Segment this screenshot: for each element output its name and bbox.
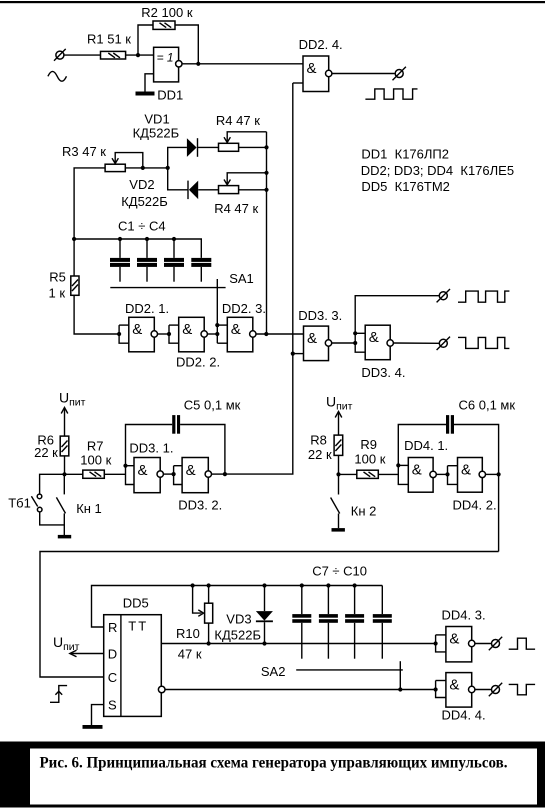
gate DD3.2 [172,458,223,513]
node VD3 bottom [262,641,266,645]
output terminal X3 [437,289,450,302]
svg-text:VD1: VD1 [144,112,169,127]
ground (DD1) [136,92,155,96]
wire DD3.3 output branch to terminal X3 [355,296,439,334]
wire VD1 to R4 upper [198,146,219,148]
resistor R5 [49,270,80,301]
svg-text:&: & [231,321,241,338]
node R1-R2 junction [136,53,140,57]
svg-text:C5 0,1 мк: C5 0,1 мк [184,398,241,413]
wire DD3.4 out to terminal X4 [394,342,440,344]
wire R8 bottom to node [338,455,340,474]
resistor R2 [141,5,193,29]
svg-text:47 к: 47 к [178,647,202,662]
svg-text:DD1 К176ЛП2: DD1 К176ЛП2 [361,146,449,161]
wire clock line (DD4.2 out to DD5 C) [40,552,499,678]
svg-text:R4 47 к: R4 47 к [214,201,258,216]
wire long vertical feedback (DD3.2 out to DD2.4/DD3.3) [225,83,293,474]
gate DD4.1 [398,438,448,492]
node SA2 wiper [398,687,402,691]
wire DD5 Q-bar output line [165,689,436,691]
power Uпит (D pin) [53,634,104,657]
capacitor C5 [126,398,241,475]
gate DD2.4 [299,37,343,92]
svg-text:Рис. 6. Принципиальная схема г: Рис. 6. Принципиальная схема генератора … [40,754,508,771]
wire DD5 Q output line [161,643,435,645]
resistor R4 upper (trimmer) [216,113,267,151]
svg-text:1 к: 1 к [49,286,66,301]
waveform symbol (meander 3 inverted) [458,337,509,348]
svg-text:C7 ÷ C10: C7 ÷ C10 [312,564,367,579]
wire DD1 output to DD2.4 [182,63,303,65]
node VD3 top [262,583,266,587]
node rail junctions [264,145,268,149]
capacitor C6 [398,398,515,552]
svg-text:&: & [132,321,142,338]
gate DD3.1 [126,440,174,492]
svg-text:&: & [138,462,148,479]
svg-text:DD5 К176ТМ2: DD5 К176ТМ2 [361,179,450,194]
svg-text:= 1: = 1 [157,50,174,64]
svg-text:R1 51 к: R1 51 к [87,32,131,47]
gate DD4.3 [434,608,486,662]
ground (Kn1) [58,535,71,539]
svg-text:Кн 2: Кн 2 [351,504,377,519]
button Кн1 [56,474,101,535]
svg-text:D: D [108,646,117,661]
wire R9 to DD4.1 [378,473,398,475]
wire feedback rail (R4s to DD2.3 output) [266,132,268,334]
svg-text:DD4. 4.: DD4. 4. [442,708,486,723]
wire DD3.1 out to DD3.2 [164,473,174,475]
diode VD3 [214,586,273,644]
caption shadow box [0,742,545,808]
svg-text:DD3. 1.: DD3. 1. [129,440,173,455]
wire R6 bottom to node [64,456,66,474]
svg-text:R: R [108,620,117,635]
capacitor C7 [292,583,311,658]
svg-text:DD4. 3.: DD4. 3. [442,608,486,623]
resistor R4 lower (trimmer) [214,173,266,216]
node Kn1 junction [62,472,66,476]
svg-text:DD3. 4.: DD3. 4. [361,365,405,380]
output terminal X2 [393,67,406,80]
node diode branch point [166,166,170,170]
wire SA1 wiper to DD2.3 input [216,279,218,343]
svg-text:DD1: DD1 [157,88,183,103]
gate DD2.1 [117,301,169,352]
output terminal X6 [489,683,502,696]
svg-text:R5: R5 [49,270,66,285]
svg-text:&: & [307,330,317,347]
resistor R9 [354,437,385,478]
gate DD3.3 [298,308,342,361]
svg-text:&: & [182,321,192,338]
wire DD4.3 out to terminal X5 [475,643,492,645]
wire node to Tb1 [40,474,65,494]
wire DD2.3 out to DD3.3 [256,333,303,335]
power Uпит (Kn1 section) [59,390,86,437]
wire DD1 lower input to ground [145,74,154,92]
node R10 arrow on rail [191,583,195,587]
svg-text:DD2. 1.: DD2. 1. [125,301,169,316]
svg-text:R2 100 к: R2 100 к [141,5,193,20]
svg-text:100 к: 100 к [354,452,385,467]
resistor R7 [80,439,111,479]
button Кн2 [331,474,377,528]
svg-text:КД522Б: КД522Б [121,194,168,209]
svg-text:&: & [412,462,422,479]
wire SA2 wiper [399,661,401,689]
capacitor C4 [191,258,211,282]
op element DD1 (=1 gate) [154,47,184,102]
wire DD5 S pin to ground [92,705,104,725]
svg-text:DD5: DD5 [123,596,149,611]
switch SA1 bar [110,271,253,288]
svg-text:DD4. 1.: DD4. 1. [404,438,448,453]
svg-text:R10: R10 [176,626,200,641]
svg-text:R4 47 к: R4 47 к [216,113,260,128]
capacitor C1 [110,237,130,282]
wire DD4.2 out to right vertical [486,473,499,475]
svg-text:VD2: VD2 [129,177,154,192]
wire R2 left branch [138,25,153,55]
svg-text:22 к: 22 к [308,447,332,462]
gate DD2.2 [167,317,220,369]
diode VD1 [133,112,198,157]
svg-text:DD3. 2.: DD3. 2. [178,497,222,512]
svg-text:DD2. 2.: DD2. 2. [176,355,220,370]
wire R3 left down to cap rail [74,168,105,239]
wire VD2 to R4 lower [198,189,218,191]
top border line [0,1,545,3]
svg-text:VD3: VD3 [226,612,251,627]
wire capacitor bank rail C1-C4 [74,239,201,258]
svg-text:SA1: SA1 [229,271,254,286]
svg-text:R7: R7 [87,439,104,454]
svg-text:КД522Б: КД522Б [133,126,180,141]
wire DD2.4 output to terminal [332,73,395,75]
resistor R1 [87,32,131,60]
svg-text:DD2. 3.: DD2. 3. [222,301,266,316]
svg-text:R8: R8 [310,433,327,448]
waveform symbol (meander 2) [458,291,509,302]
node DD2.3 output / rail [264,332,268,336]
ground (DD5) [83,725,103,729]
power Uпит (Kn2 section) [326,394,353,436]
svg-text:&: & [186,462,196,479]
wire R4 upper right to rail [239,146,267,148]
svg-text:C6 0,1 мк: C6 0,1 мк [459,398,516,413]
switch Тб1 [8,494,42,512]
svg-text:КД522Б: КД522Б [214,628,261,643]
output terminal X4 [437,337,450,350]
node C5 left [123,464,127,468]
wire R5 leads [73,239,75,276]
input terminal X1 [54,49,66,61]
svg-text:Тб1: Тб1 [8,496,31,511]
svg-text:&: & [449,677,459,694]
svg-text:TT: TT [128,619,148,634]
capacitor C3 [164,237,184,282]
node R10 top on rail [207,583,211,587]
wire node to R9 [339,473,357,475]
node R3 wiper junction [141,166,145,170]
wire R2 right branch [175,25,198,64]
svg-text:R9: R9 [360,437,377,452]
ground (Kn2) [332,528,345,532]
svg-text:&: & [369,329,379,346]
svg-text:R3 47 к: R3 47 к [62,144,106,159]
flip-flop DD5 [104,596,165,717]
node rail left [72,237,76,241]
capacitor C2 [137,237,157,282]
IC type list text [361,146,514,194]
output terminal X5 [489,637,502,650]
node C5 right [223,472,227,476]
waveform symbol (single inverted pulse) [509,684,535,694]
resistor R8 [308,433,343,463]
wire DD3.2 out to feedback vertical [212,473,225,475]
node DD3.3 lower input [291,352,295,356]
svg-text:100 к: 100 к [80,453,111,468]
node R10 bottom [207,641,211,645]
capacitor C8 [319,583,338,658]
wire Tb1 bottom [40,512,65,525]
svg-text:DD3. 3.: DD3. 3. [298,308,342,323]
node R2-output junction [196,62,200,66]
svg-text:Кн 1: Кн 1 [76,501,102,516]
wire DD2.2 out to DD2.3 [208,333,218,335]
wire DD4.1 out to DD4.2 [436,473,447,475]
wire node to R7 [65,473,83,475]
wire DD3.3 lower input [293,353,304,355]
switch SA2 bar [261,664,403,679]
node C6 right [497,472,501,476]
resistor R10 (trimmer) [176,586,213,662]
wire R3 right to diode branch [125,167,167,169]
wire DD3.3 out to DD3.4 [332,342,355,344]
resistor R6 [34,433,69,461]
wire R4 lower right to rail [239,189,267,191]
wire input to DD1 [64,54,154,56]
gate DD3.4 [353,325,405,380]
node Kn2 junction [336,472,340,476]
svg-text:22 к: 22 к [34,445,58,460]
svg-text:SA2: SA2 [261,664,286,679]
svg-text:DD2; DD3; DD4 К176ЛЕ5: DD2; DD3; DD4 К176ЛЕ5 [361,163,514,178]
gate DD4.4 [434,673,486,723]
waveform symbol (meander 1) [365,89,417,99]
svg-text:S: S [108,697,117,712]
svg-text:DD2. 4.: DD2. 4. [299,37,343,52]
capacitor C9 [345,583,364,658]
wire DD4.4 out to terminal X6 [475,689,492,691]
diode VD2 [121,177,198,209]
wire DD2.1 out to DD2.2 [158,333,169,335]
svg-text:&: & [307,60,317,77]
resistor R3 (trimmer) [62,144,143,172]
sine symbol [48,71,67,81]
svg-text:DD4. 2.: DD4. 2. [453,497,497,512]
wire DD2.4 lower input [293,82,303,84]
svg-text:&: & [449,631,459,648]
wire R7 to DD3.1 [104,473,125,475]
gate DD4.2 [445,458,496,513]
gate DD2.3 [215,301,266,352]
waveform symbol (single pulse) [509,638,535,649]
node C6 left [396,463,400,467]
edge symbol (clock) [50,686,67,703]
svg-text:C1 ÷ C4: C1 ÷ C4 [118,219,166,234]
wire DD5 R pin to rail [92,586,383,628]
svg-text:&: & [461,462,471,479]
capacitor C10 [373,586,392,659]
svg-text:C: C [108,670,117,685]
wire branch vertical VD1/VD2 [168,147,188,189]
